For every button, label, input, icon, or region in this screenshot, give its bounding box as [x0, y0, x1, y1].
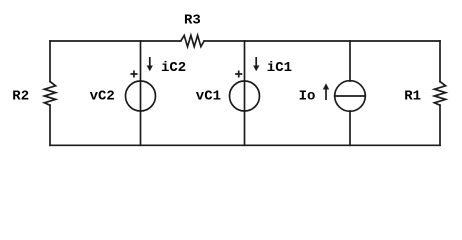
svg-text:iC2: iC2 [161, 60, 186, 76]
wire Io branch bottom [349, 111, 351, 145]
svg-text:R1: R1 [404, 88, 421, 104]
wire vC1 branch [244, 41, 246, 145]
current arrow iC1 [253, 57, 259, 71]
wire top rail left segment [50, 40, 181, 42]
wire right rail bottom [439, 105, 441, 145]
wire top rail right segment [204, 40, 440, 42]
plus sign of vC1 [236, 71, 241, 76]
wire left rail top [49, 41, 51, 82]
plus sign of vC2 [131, 71, 136, 76]
svg-text:vC1: vC1 [196, 88, 221, 104]
wire left rail bottom [49, 105, 51, 145]
current source Io [335, 81, 366, 112]
svg-text:R2: R2 [12, 88, 29, 104]
wire vC2 branch [140, 41, 142, 145]
svg-text:R3: R3 [184, 13, 201, 29]
svg-text:vC2: vC2 [90, 88, 115, 104]
resistor R3 [181, 35, 204, 46]
resistor R2 [44, 82, 55, 106]
resistor R1 [434, 82, 445, 106]
svg-text:Io: Io [299, 88, 316, 104]
wire right rail top [439, 41, 441, 82]
svg-text:iC1: iC1 [267, 60, 292, 76]
current arrow iC2 [147, 57, 153, 71]
wire Io branch top [349, 41, 351, 81]
wire bottom rail [50, 144, 440, 146]
current arrow Io (up) [323, 83, 329, 100]
voltage source vC1 [230, 81, 260, 111]
voltage source vC2 [126, 81, 156, 111]
